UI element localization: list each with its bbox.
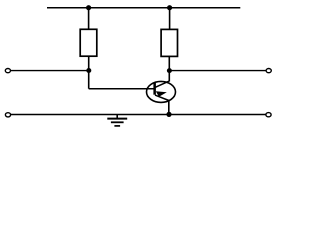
transistor Q1 emitter arrow	[156, 91, 167, 96]
bottom terminal right	[266, 113, 271, 117]
wire R2 bottom lead to collector	[168, 56, 170, 81]
wire R2 top lead	[169, 8, 171, 30]
resistor R1	[80, 29, 97, 56]
junction dot collector node	[167, 68, 172, 73]
resistor R2	[161, 29, 177, 56]
wire R1 top lead	[88, 8, 90, 30]
ground bar 2	[111, 121, 124, 123]
wire base horizontal	[89, 88, 155, 90]
input terminal left	[5, 69, 10, 73]
junction dot rail-R1	[86, 5, 91, 10]
transistor Q1 body circle	[147, 81, 176, 102]
junction dot emitter-ground	[166, 112, 171, 117]
ground stub	[116, 115, 118, 119]
bottom terminal left	[5, 113, 10, 117]
wire emitter lead down	[168, 100, 170, 114]
junction dot base node	[86, 68, 91, 73]
output terminal right	[266, 69, 271, 73]
wire output right	[169, 70, 265, 72]
wire input left	[11, 70, 89, 72]
junction dot rail-R2	[167, 5, 172, 10]
wire R1 bottom lead	[88, 56, 90, 88]
transistor Q1 emitter stroke	[155, 95, 169, 100]
wire bottom ground rail	[11, 114, 266, 116]
ground bar 1	[107, 118, 127, 120]
transistor Q1 base bar	[153, 83, 156, 95]
ground bar 3	[114, 125, 120, 127]
transistor Q1 collector stroke	[155, 81, 169, 87]
wire top supply rail	[47, 7, 240, 9]
